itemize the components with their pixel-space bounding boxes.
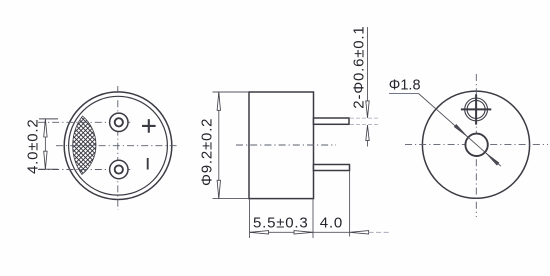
center hole Φ1.8 [465, 134, 487, 156]
svg-text:Φ1.8: Φ1.8 [389, 77, 421, 93]
back view vertical centerline [475, 74, 477, 217]
bottom pin inner ring [115, 165, 123, 173]
side view horizontal centerline [236, 144, 336, 146]
dimension Φ9.2±0.2 top arrow [217, 92, 220, 110]
svg-text:2-Φ0.6±0.1: 2-Φ0.6±0.1 [351, 25, 368, 108]
leader lower arrow [485, 152, 499, 165]
back view circle [422, 91, 529, 198]
top pin outer ring [110, 113, 128, 131]
dimension Φ9.2±0.2 top extension line [213, 91, 250, 93]
dimension 2-Φ0.6 upper arrow [366, 101, 369, 118]
dimension 5.5 left arrow [250, 231, 269, 234]
back view horizontal centerline [405, 144, 548, 146]
front view inner circle [69, 96, 168, 195]
front view outer circle [64, 92, 172, 200]
leader upper arrow [454, 124, 468, 137]
dimension 4.0±0.2 line [44, 119, 46, 169]
screw head inner circle [467, 100, 485, 118]
front view vertical centerline [117, 86, 119, 210]
hatched crescent region [73, 116, 96, 175]
leader underline for Φ1.8 [389, 93, 419, 95]
dimension 5.5±0.3 line [250, 231, 350, 233]
top pin centerline [38, 121, 133, 123]
dimension 2-Φ0.6 lower arrow [366, 125, 369, 140]
dimension 2-Φ0.6 vertical line upper [367, 27, 369, 118]
top pin (side view) [314, 118, 350, 124]
extension line pin-end [349, 171, 351, 237]
svg-text:5.5±0.3: 5.5±0.3 [253, 215, 309, 232]
bottom pin (side view) [314, 165, 350, 171]
top pin inner ring [115, 118, 123, 126]
dimension 4.0 outside arrow [350, 231, 369, 234]
extension line body-left [249, 199, 251, 238]
plus polarity mark [142, 119, 156, 133]
front view horizontal centerline [56, 145, 177, 147]
leader tail line [485, 152, 501, 166]
svg-text:4.0: 4.0 [320, 215, 343, 232]
screw head outer circle [465, 98, 488, 121]
side view body rectangle [249, 92, 314, 199]
bottom pin outer ring [110, 160, 128, 178]
leader diagonal line [419, 94, 469, 138]
bottom pin centerline [38, 169, 133, 171]
dimension 4.0±0.2 top arrow [39, 118, 58, 120]
dimension Φ9.2±0.2 line [218, 92, 220, 199]
leader through line inside hole [468, 137, 485, 152]
svg-text:Φ9.2±0.2: Φ9.2±0.2 [199, 118, 216, 186]
screw head cross [461, 94, 491, 124]
dimension Φ9.2±0.2 bottom arrow [217, 180, 220, 198]
dimension 2-Φ0.6 vertical line lower [367, 125, 369, 147]
extension line body-right [312, 199, 314, 238]
svg-text:4.0±0.2: 4.0±0.2 [25, 118, 42, 174]
dimension Φ9.2±0.2 bottom extension line [213, 198, 250, 200]
pin top edge extension dash [350, 117, 378, 119]
dimension 5.5 right arrow [294, 231, 313, 234]
minus polarity mark (vertical bar) [147, 158, 149, 170]
pin bottom edge extension dash [350, 124, 378, 126]
dimension 4.0±0.2 bottom arrow [39, 168, 58, 170]
dimension 4.0 tail line [369, 231, 390, 233]
